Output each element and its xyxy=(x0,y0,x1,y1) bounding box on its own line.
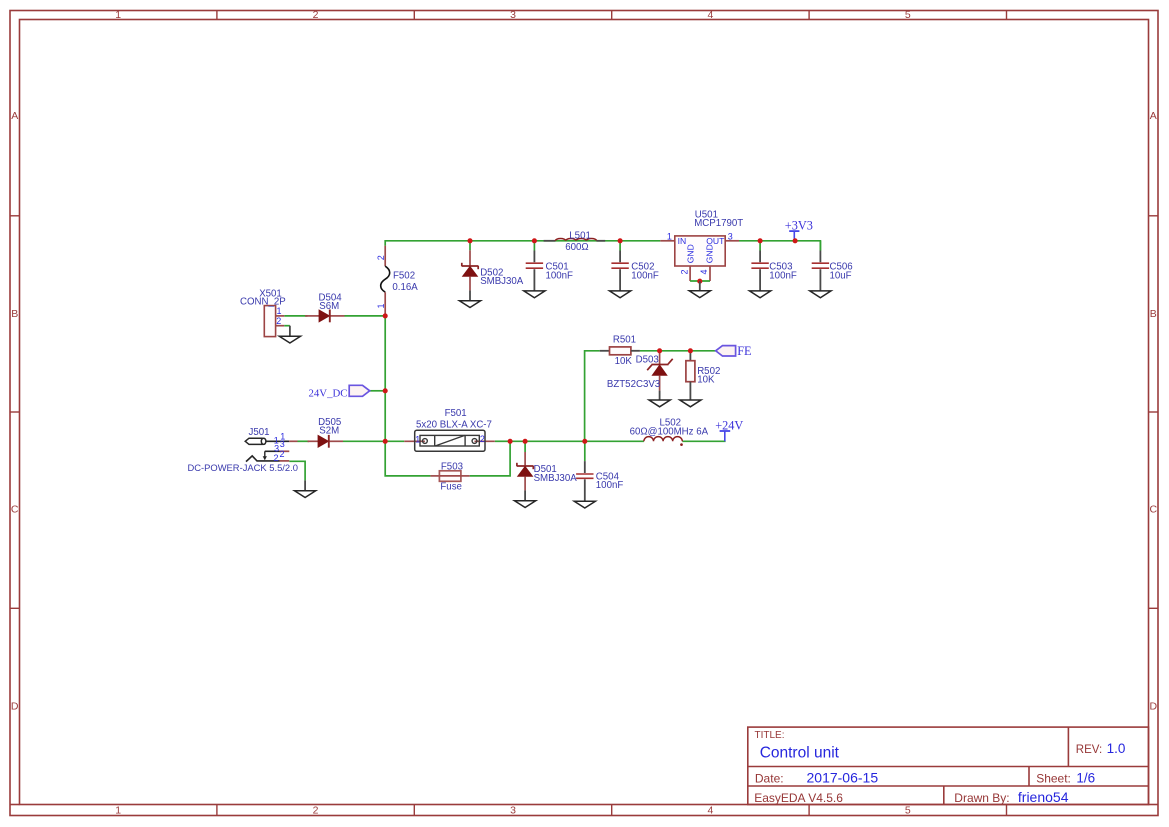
svg-text:1: 1 xyxy=(415,435,420,445)
ground xyxy=(515,501,536,508)
lead U501 pin1 xyxy=(660,240,675,242)
junction at bypass right xyxy=(508,439,513,444)
lead U501 pin3 xyxy=(725,240,739,242)
svg-text:A: A xyxy=(1150,110,1157,122)
junction at D502 xyxy=(467,238,472,243)
svg-text:1/6: 1/6 xyxy=(1076,771,1095,786)
diode D505 xyxy=(318,417,341,448)
svg-text:3: 3 xyxy=(510,9,516,21)
svg-text:Drawn By:: Drawn By: xyxy=(954,791,1009,805)
ground xyxy=(574,501,595,508)
svg-text:MCP1790T: MCP1790T xyxy=(694,218,743,229)
svg-text:2: 2 xyxy=(280,449,285,459)
fuse F501 (holder) xyxy=(415,408,492,451)
junction at +3V3 xyxy=(793,238,798,243)
junction at U501 ground xyxy=(697,279,702,284)
svg-text:frieno54: frieno54 xyxy=(1018,789,1069,805)
svg-text:S2M: S2M xyxy=(319,426,339,437)
ground xyxy=(610,291,631,298)
svg-text:F503: F503 xyxy=(441,461,463,472)
svg-text:Sheet:: Sheet: xyxy=(1036,771,1071,785)
wire 24V_DC flag to bus xyxy=(370,390,386,392)
svg-text:600Ω: 600Ω xyxy=(565,242,588,253)
capacitor C501 xyxy=(526,241,573,291)
resistor R502 xyxy=(686,351,720,400)
net flag FE xyxy=(716,344,752,358)
svg-text:100nF: 100nF xyxy=(631,270,659,281)
svg-text:0.16A: 0.16A xyxy=(392,282,418,293)
svg-text:4: 4 xyxy=(699,269,709,274)
net flag 24V_DC xyxy=(309,385,370,399)
svg-text:2: 2 xyxy=(313,804,319,816)
lead D505 anode xyxy=(308,440,319,442)
wire left vertical (24V_DC bus) xyxy=(384,316,386,441)
junction at C501 xyxy=(532,238,537,243)
lead D504 cathode xyxy=(330,315,345,317)
svg-text:EasyEDA V4.5.6: EasyEDA V4.5.6 xyxy=(754,791,843,805)
svg-text:A: A xyxy=(11,110,18,122)
capacitor C503 xyxy=(751,241,796,291)
svg-text:B: B xyxy=(11,308,18,320)
svg-text:5: 5 xyxy=(905,804,911,816)
svg-text:1: 1 xyxy=(115,804,121,816)
svg-text:J501: J501 xyxy=(249,427,270,438)
svg-text:D: D xyxy=(1150,700,1158,712)
svg-text:100nF: 100nF xyxy=(546,270,574,281)
svg-text:2017-06-15: 2017-06-15 xyxy=(807,770,879,786)
svg-text:60Ω@100MHz 6A: 60Ω@100MHz 6A xyxy=(630,426,709,437)
svg-text:2: 2 xyxy=(313,9,319,21)
svg-text:2: 2 xyxy=(480,434,485,444)
svg-text:4: 4 xyxy=(707,9,713,21)
svg-text:2: 2 xyxy=(274,453,279,463)
wire bypass down-left xyxy=(385,441,430,476)
connector J501 (DC power jack) xyxy=(188,427,298,473)
diode D501 xyxy=(517,452,577,501)
junction at D501 xyxy=(523,439,528,444)
capacitor C506 xyxy=(812,241,853,291)
ground xyxy=(524,291,545,298)
capacitor C502 xyxy=(611,241,658,291)
power flag +24V xyxy=(715,418,743,441)
svg-text:Fuse: Fuse xyxy=(440,481,462,492)
svg-text:+24V: +24V xyxy=(715,418,743,432)
lead F501 pin1 xyxy=(404,440,425,442)
wire R501 net riser xyxy=(585,351,600,442)
svg-text:S6M: S6M xyxy=(319,301,339,312)
wire F501 pin2 to junction xyxy=(495,440,510,442)
junction at 24V_DC xyxy=(383,388,388,393)
svg-text:100nF: 100nF xyxy=(596,480,624,491)
wire L502 to +24V corner xyxy=(682,440,725,442)
svg-text:5x20 BLX-A XC-7: 5x20 BLX-A XC-7 xyxy=(416,419,492,430)
svg-text:Control unit: Control unit xyxy=(760,745,840,762)
svg-text:3: 3 xyxy=(510,804,516,816)
svg-text:3: 3 xyxy=(728,232,733,242)
svg-text:10uF: 10uF xyxy=(830,270,852,281)
junction at D503 xyxy=(657,348,662,353)
wire R501 to D503 R502 FE xyxy=(640,350,716,352)
lead D505 cathode xyxy=(329,440,343,442)
svg-text:FE: FE xyxy=(737,344,751,358)
svg-text:1: 1 xyxy=(277,306,282,316)
svg-text:TITLE:: TITLE: xyxy=(755,730,785,741)
junction at C502 xyxy=(618,238,623,243)
svg-text:GND: GND xyxy=(685,244,695,263)
wire main rail to L502 xyxy=(510,440,644,442)
svg-text:Date:: Date: xyxy=(755,771,784,785)
svg-text:1: 1 xyxy=(115,9,121,21)
diode D502 xyxy=(462,250,524,300)
junction at D504/F502 node xyxy=(383,313,388,318)
resistor R501 xyxy=(600,335,640,367)
inductor L502 xyxy=(630,417,709,446)
svg-text:REV:: REV: xyxy=(1076,744,1102,756)
wire J501 pin2 to ground xyxy=(289,461,305,480)
svg-text:R501: R501 xyxy=(613,335,636,346)
wire D505 to junction xyxy=(343,440,385,442)
ground at U501 xyxy=(689,291,710,298)
junction at D505 output xyxy=(383,439,388,444)
wire X501 pin1 to D504 xyxy=(284,315,307,317)
wire D504 to vertical bus xyxy=(345,315,386,317)
op-amp U501 (MCP1790T regulator) xyxy=(675,210,743,282)
svg-text:C: C xyxy=(11,504,19,516)
lead D504 anode xyxy=(305,315,319,317)
junction at C503 xyxy=(758,238,763,243)
svg-text:10K: 10K xyxy=(615,356,633,367)
svg-text:24V_DC: 24V_DC xyxy=(309,387,348,399)
lead F501 pin2 xyxy=(475,440,495,442)
fuse F502 xyxy=(381,246,419,316)
svg-text:B: B xyxy=(1150,308,1157,320)
svg-text:L501: L501 xyxy=(569,230,591,241)
ground at D503 xyxy=(649,400,670,407)
wire top rail right (U501 pin3 to C506) xyxy=(739,241,820,251)
ground xyxy=(810,291,831,298)
svg-text:1: 1 xyxy=(667,232,672,242)
wire stub D502 xyxy=(469,241,471,251)
power flag +3V3 xyxy=(785,218,813,240)
wire top rail left (F502 corner to U501 pin1) xyxy=(385,241,660,246)
svg-text:BZT52C3V3: BZT52C3V3 xyxy=(607,379,660,390)
svg-text:1: 1 xyxy=(376,303,386,308)
wire F503 to bypass right riser xyxy=(470,441,510,476)
svg-text:2: 2 xyxy=(276,316,281,326)
connector X501 xyxy=(240,288,290,336)
svg-text:DC-POWER-JACK 5.5/2.0: DC-POWER-JACK 5.5/2.0 xyxy=(188,462,298,473)
svg-text:2: 2 xyxy=(376,255,386,260)
svg-text:5: 5 xyxy=(905,9,911,21)
svg-text:C: C xyxy=(1150,504,1158,516)
svg-text:SMBJ30A: SMBJ30A xyxy=(480,276,524,287)
wire junction to F501 pin1 xyxy=(385,440,404,442)
wire J501 pin1 to D505 xyxy=(298,440,310,442)
svg-text:SMBJ30A: SMBJ30A xyxy=(534,473,578,484)
ground at R502 xyxy=(680,400,701,407)
capacitor C504 xyxy=(576,441,623,501)
svg-text:GND: GND xyxy=(705,244,715,263)
svg-text:2: 2 xyxy=(679,269,689,274)
svg-text:4: 4 xyxy=(707,804,713,816)
diode D504 xyxy=(319,293,343,323)
svg-text:100nF: 100nF xyxy=(769,270,797,281)
svg-text:10K: 10K xyxy=(697,375,715,386)
fuse F503 xyxy=(430,461,469,492)
ground at J501 xyxy=(295,491,316,498)
wire stub D501 xyxy=(524,441,526,452)
svg-text:F501: F501 xyxy=(445,408,467,419)
ground xyxy=(750,291,771,298)
svg-text:+3V3: +3V3 xyxy=(785,218,813,232)
junction at C504 xyxy=(582,439,587,444)
svg-text:F502: F502 xyxy=(393,270,415,281)
title block xyxy=(748,727,1149,805)
junction at R502 xyxy=(688,348,693,353)
svg-text:D503: D503 xyxy=(636,354,659,365)
svg-text:3: 3 xyxy=(280,439,285,449)
inductor L501 xyxy=(544,230,606,252)
ground xyxy=(459,301,480,308)
diode D503 (zener) xyxy=(607,351,673,400)
ground at X501 pin2 xyxy=(279,336,300,343)
svg-text:1.0: 1.0 xyxy=(1107,741,1126,756)
svg-text:D: D xyxy=(11,700,19,712)
